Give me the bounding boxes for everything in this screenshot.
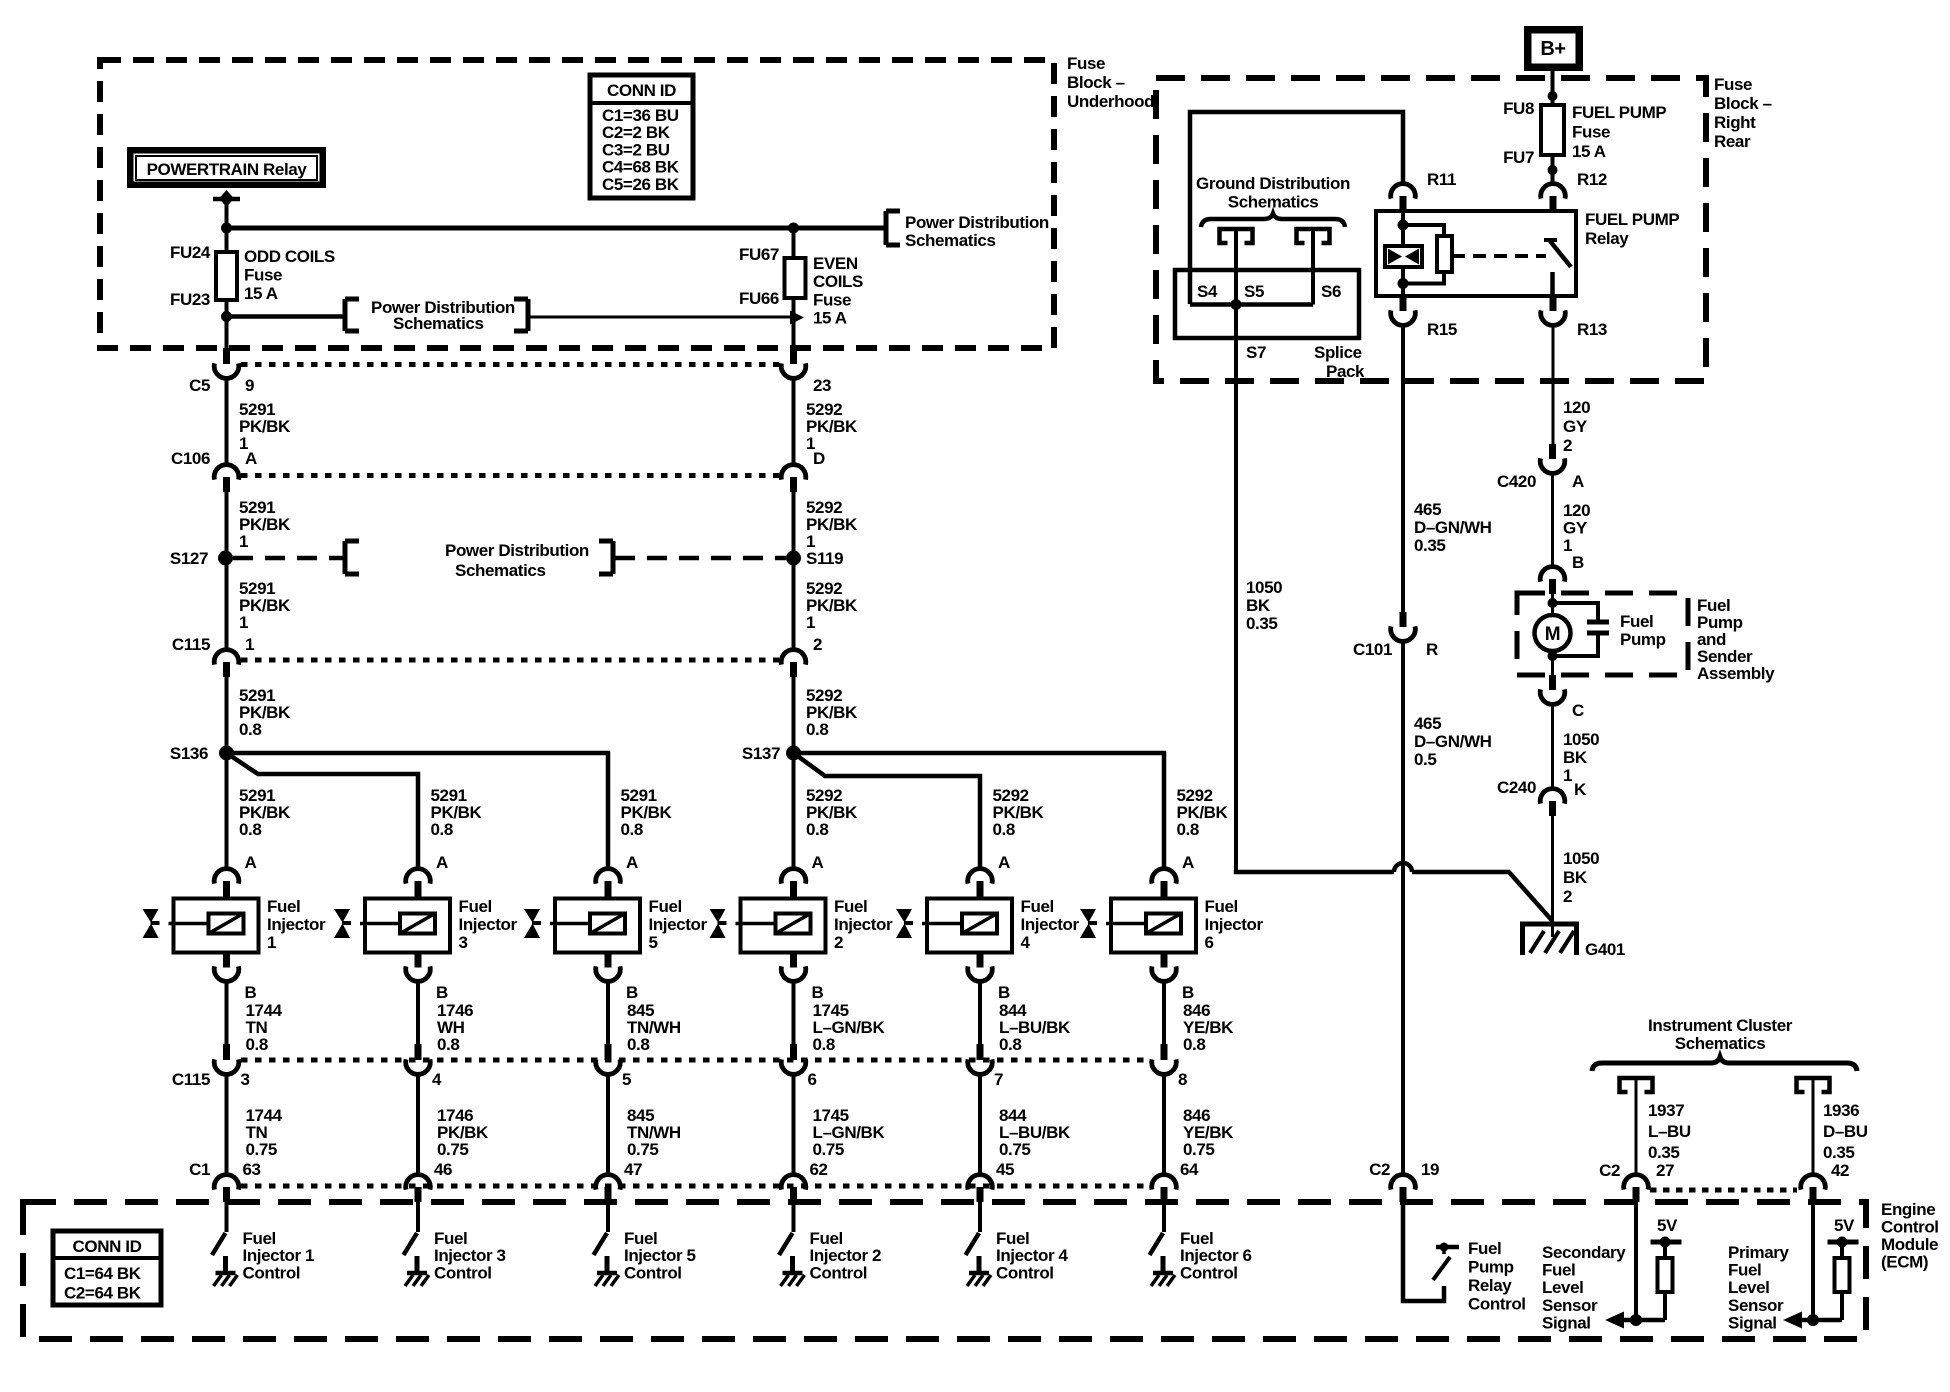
svg-text:46: 46 <box>434 1160 452 1179</box>
svg-text:0.8: 0.8 <box>246 1035 268 1054</box>
svg-text:0.75: 0.75 <box>627 1140 659 1159</box>
svg-text:G401: G401 <box>1585 940 1625 959</box>
svg-text:B: B <box>436 983 448 1002</box>
svg-text:Sensor: Sensor <box>1728 1296 1784 1315</box>
svg-text:Control: Control <box>243 1263 301 1282</box>
svg-text:7: 7 <box>994 1070 1003 1089</box>
svg-text:1050: 1050 <box>1246 578 1282 597</box>
svg-text:(ECM): (ECM) <box>1881 1253 1928 1272</box>
svg-text:C1=64 BK: C1=64 BK <box>64 1264 142 1283</box>
svg-text:0.5: 0.5 <box>1414 750 1436 769</box>
svg-text:R: R <box>1426 640 1438 659</box>
svg-text:S7: S7 <box>1246 343 1266 362</box>
svg-text:0.8: 0.8 <box>1177 820 1199 839</box>
svg-text:Power Distribution: Power Distribution <box>445 541 589 560</box>
svg-text:Fuel: Fuel <box>1468 1239 1501 1258</box>
svg-text:Injector: Injector <box>267 915 326 934</box>
svg-text:C2=2 BK: C2=2 BK <box>602 123 671 142</box>
svg-text:Pump: Pump <box>1468 1258 1514 1277</box>
svg-text:Injector 1: Injector 1 <box>243 1246 315 1265</box>
svg-text:Secondary: Secondary <box>1542 1243 1626 1262</box>
svg-text:FU67: FU67 <box>739 245 779 264</box>
svg-text:Control: Control <box>810 1263 868 1282</box>
svg-text:S127: S127 <box>170 549 208 568</box>
svg-text:5V: 5V <box>1834 1216 1855 1235</box>
svg-text:A: A <box>245 853 257 872</box>
svg-text:R12: R12 <box>1577 170 1607 189</box>
svg-text:3: 3 <box>459 933 468 952</box>
svg-text:0.35: 0.35 <box>1414 536 1446 555</box>
svg-text:B: B <box>1572 553 1584 572</box>
svg-text:Schematics: Schematics <box>393 314 484 333</box>
svg-text:1: 1 <box>239 532 248 551</box>
svg-text:C5: C5 <box>189 376 210 395</box>
svg-text:5: 5 <box>649 933 658 952</box>
svg-text:C1: C1 <box>189 1160 210 1179</box>
svg-text:CONN ID: CONN ID <box>73 1237 142 1256</box>
svg-text:Ground Distribution: Ground Distribution <box>1196 174 1350 193</box>
svg-text:Fuel: Fuel <box>1542 1261 1575 1280</box>
svg-text:1: 1 <box>239 613 248 632</box>
svg-text:C4=68 BK: C4=68 BK <box>602 158 680 177</box>
svg-text:Injector: Injector <box>1021 915 1080 934</box>
svg-text:C240: C240 <box>1497 778 1536 797</box>
svg-text:B: B <box>626 983 638 1002</box>
svg-text:S137: S137 <box>742 744 780 763</box>
svg-text:FU8: FU8 <box>1503 99 1534 118</box>
svg-text:D: D <box>813 449 825 468</box>
svg-text:A: A <box>1572 472 1584 491</box>
svg-text:0.8: 0.8 <box>437 1035 459 1054</box>
svg-text:1050: 1050 <box>1563 730 1599 749</box>
svg-text:Fuel: Fuel <box>649 897 682 916</box>
svg-text:465: 465 <box>1414 500 1441 519</box>
svg-text:23: 23 <box>813 376 831 395</box>
svg-text:45: 45 <box>996 1160 1014 1179</box>
svg-text:8: 8 <box>1178 1070 1187 1089</box>
svg-text:Fuse: Fuse <box>1714 75 1752 94</box>
svg-text:15 A: 15 A <box>1572 142 1606 161</box>
svg-text:15 A: 15 A <box>813 309 847 328</box>
svg-text:A: A <box>998 853 1010 872</box>
svg-text:0.8: 0.8 <box>239 720 261 739</box>
svg-text:465: 465 <box>1414 714 1441 733</box>
svg-text:S136: S136 <box>170 744 208 763</box>
svg-text:Pump: Pump <box>1620 630 1666 649</box>
svg-text:C106: C106 <box>171 449 210 468</box>
svg-text:BK: BK <box>1563 868 1588 887</box>
svg-text:0.8: 0.8 <box>627 1035 649 1054</box>
svg-text:GY: GY <box>1563 417 1588 436</box>
svg-text:9: 9 <box>245 376 254 395</box>
svg-text:C3=2 BU: C3=2 BU <box>602 140 670 159</box>
svg-text:6: 6 <box>808 1070 817 1089</box>
svg-text:C115: C115 <box>172 635 210 654</box>
svg-text:Signal: Signal <box>1728 1313 1777 1332</box>
svg-text:Fuel: Fuel <box>434 1229 467 1248</box>
svg-text:Injector 6: Injector 6 <box>1180 1246 1252 1265</box>
svg-text:1937: 1937 <box>1648 1101 1684 1120</box>
svg-text:FUEL PUMP: FUEL PUMP <box>1572 103 1666 122</box>
svg-text:ODD COILS: ODD COILS <box>244 247 335 266</box>
svg-text:GY: GY <box>1563 519 1588 538</box>
svg-text:C420: C420 <box>1497 472 1536 491</box>
svg-text:S6: S6 <box>1321 282 1341 301</box>
svg-text:0.8: 0.8 <box>1183 1035 1205 1054</box>
svg-text:S5: S5 <box>1244 282 1264 301</box>
svg-text:Fuse: Fuse <box>244 266 282 285</box>
svg-text:FUEL PUMP: FUEL PUMP <box>1585 210 1679 229</box>
svg-text:64: 64 <box>1180 1160 1199 1179</box>
svg-text:Level: Level <box>1542 1278 1583 1297</box>
svg-text:15 A: 15 A <box>244 284 278 303</box>
svg-text:42: 42 <box>1831 1161 1849 1180</box>
svg-text:FU23: FU23 <box>170 290 210 309</box>
svg-text:Instrument Cluster: Instrument Cluster <box>1648 1016 1793 1035</box>
svg-text:Injector 2: Injector 2 <box>810 1246 882 1265</box>
svg-text:S119: S119 <box>806 549 843 568</box>
svg-text:0.8: 0.8 <box>621 820 643 839</box>
svg-text:2: 2 <box>1563 887 1572 906</box>
svg-text:0.35: 0.35 <box>1246 614 1278 633</box>
svg-text:0.75: 0.75 <box>813 1140 845 1159</box>
svg-text:2: 2 <box>813 635 822 654</box>
svg-text:Control: Control <box>434 1263 492 1282</box>
svg-text:S4: S4 <box>1197 282 1218 301</box>
svg-text:4: 4 <box>1021 933 1031 952</box>
svg-text:K: K <box>1574 780 1587 799</box>
svg-text:Block –: Block – <box>1714 94 1772 113</box>
svg-text:2: 2 <box>834 933 843 952</box>
svg-text:0.8: 0.8 <box>813 1035 835 1054</box>
svg-text:CONN ID: CONN ID <box>607 81 676 100</box>
svg-text:19: 19 <box>1421 1160 1439 1179</box>
svg-text:C101: C101 <box>1353 640 1392 659</box>
svg-text:Block –: Block – <box>1067 73 1125 92</box>
svg-text:POWERTRAIN Relay: POWERTRAIN Relay <box>147 160 308 179</box>
svg-text:Fuel: Fuel <box>810 1229 843 1248</box>
svg-text:Schematics: Schematics <box>905 231 996 250</box>
svg-text:120: 120 <box>1563 398 1590 417</box>
svg-text:4: 4 <box>432 1070 442 1089</box>
svg-text:Control: Control <box>1881 1218 1939 1237</box>
svg-text:Splice: Splice <box>1314 343 1362 362</box>
svg-text:Fuel: Fuel <box>834 897 867 916</box>
svg-text:B: B <box>998 983 1010 1002</box>
svg-text:Fuel: Fuel <box>1620 612 1653 631</box>
svg-text:1: 1 <box>245 635 254 654</box>
svg-text:1: 1 <box>267 933 276 952</box>
svg-text:FU66: FU66 <box>739 289 779 308</box>
svg-text:EVEN: EVEN <box>813 254 858 273</box>
svg-text:Injector: Injector <box>834 915 893 934</box>
svg-text:Relay: Relay <box>1585 229 1629 248</box>
svg-text:120: 120 <box>1563 501 1590 520</box>
svg-text:A: A <box>626 853 638 872</box>
svg-text:A: A <box>245 449 257 468</box>
svg-text:Engine: Engine <box>1881 1200 1935 1219</box>
svg-text:B: B <box>245 983 257 1002</box>
svg-text:R15: R15 <box>1427 320 1457 339</box>
svg-text:Fuel: Fuel <box>1728 1261 1761 1280</box>
svg-text:Right: Right <box>1714 113 1756 132</box>
svg-text:Signal: Signal <box>1542 1313 1591 1332</box>
svg-text:Level: Level <box>1728 1278 1769 1297</box>
svg-text:Injector 5: Injector 5 <box>624 1246 696 1265</box>
svg-text:1936: 1936 <box>1823 1101 1859 1120</box>
svg-text:5: 5 <box>622 1070 631 1089</box>
svg-text:1: 1 <box>1563 766 1572 785</box>
svg-text:0.8: 0.8 <box>999 1035 1021 1054</box>
svg-text:A: A <box>1182 853 1194 872</box>
svg-text:1: 1 <box>806 613 815 632</box>
svg-text:63: 63 <box>243 1160 261 1179</box>
svg-text:0.75: 0.75 <box>1183 1140 1215 1159</box>
svg-text:2: 2 <box>1563 436 1572 455</box>
svg-text:R11: R11 <box>1427 170 1456 189</box>
svg-text:Injector: Injector <box>649 915 708 934</box>
svg-text:5V: 5V <box>1657 1216 1678 1235</box>
svg-text:Fuel: Fuel <box>1180 1229 1213 1248</box>
svg-text:27: 27 <box>1656 1161 1674 1180</box>
svg-text:C115: C115 <box>172 1070 210 1089</box>
svg-text:B: B <box>812 983 824 1002</box>
svg-text:B+: B+ <box>1540 38 1565 60</box>
svg-text:Fuel: Fuel <box>243 1229 276 1248</box>
svg-text:Fuel: Fuel <box>996 1229 1029 1248</box>
svg-text:C5=26 BK: C5=26 BK <box>602 175 680 194</box>
svg-text:C2: C2 <box>1369 1160 1390 1179</box>
svg-text:Underhood: Underhood <box>1067 92 1154 111</box>
svg-text:A: A <box>436 853 448 872</box>
svg-text:1: 1 <box>1563 536 1572 555</box>
svg-text:C2: C2 <box>1599 1161 1620 1180</box>
svg-text:D–BU: D–BU <box>1823 1122 1868 1141</box>
svg-text:0.8: 0.8 <box>431 820 453 839</box>
svg-text:Primary: Primary <box>1728 1243 1789 1262</box>
svg-text:M: M <box>1545 624 1560 645</box>
svg-text:Fuel: Fuel <box>267 897 300 916</box>
svg-text:L–BU: L–BU <box>1648 1122 1691 1141</box>
svg-text:Pack: Pack <box>1326 362 1365 381</box>
svg-text:R13: R13 <box>1577 320 1607 339</box>
svg-text:Fuse: Fuse <box>813 290 851 309</box>
svg-text:Schematics: Schematics <box>455 561 546 580</box>
svg-text:0.8: 0.8 <box>239 820 261 839</box>
svg-text:Assembly: Assembly <box>1697 664 1775 683</box>
svg-text:0.8: 0.8 <box>806 720 828 739</box>
svg-text:C: C <box>1572 701 1584 720</box>
svg-text:0.8: 0.8 <box>993 820 1015 839</box>
svg-text:FU24: FU24 <box>170 243 211 262</box>
svg-text:0.8: 0.8 <box>806 820 828 839</box>
svg-text:Fuel: Fuel <box>1021 897 1054 916</box>
svg-text:Rear: Rear <box>1714 132 1751 151</box>
svg-text:C1=36 BU: C1=36 BU <box>602 106 679 125</box>
svg-text:Control: Control <box>624 1263 682 1282</box>
svg-text:0.35: 0.35 <box>1648 1143 1680 1162</box>
svg-text:Relay: Relay <box>1468 1276 1512 1295</box>
svg-text:Fuse: Fuse <box>1067 54 1105 73</box>
svg-text:BK: BK <box>1563 748 1588 767</box>
svg-text:0.75: 0.75 <box>437 1140 469 1159</box>
svg-text:Injector 4: Injector 4 <box>996 1246 1069 1265</box>
svg-text:Injector: Injector <box>459 915 518 934</box>
svg-text:0.35: 0.35 <box>1823 1143 1855 1162</box>
svg-text:D–GN/WH: D–GN/WH <box>1414 518 1492 537</box>
svg-text:Fuse: Fuse <box>1572 123 1610 142</box>
svg-text:A: A <box>812 853 824 872</box>
svg-text:B: B <box>1182 983 1194 1002</box>
svg-text:COILS: COILS <box>813 272 863 291</box>
svg-text:Fuel: Fuel <box>624 1229 657 1248</box>
svg-text:Control: Control <box>996 1263 1054 1282</box>
svg-text:FU7: FU7 <box>1503 148 1534 167</box>
svg-text:0.75: 0.75 <box>999 1140 1031 1159</box>
svg-text:6: 6 <box>1205 933 1214 952</box>
svg-text:1050: 1050 <box>1563 849 1599 868</box>
svg-text:Fuel: Fuel <box>1205 897 1238 916</box>
svg-text:Fuel: Fuel <box>459 897 492 916</box>
svg-text:Module: Module <box>1881 1235 1938 1254</box>
svg-text:Injector: Injector <box>1205 915 1264 934</box>
svg-text:3: 3 <box>241 1070 250 1089</box>
svg-text:BK: BK <box>1246 596 1271 615</box>
svg-text:Control: Control <box>1180 1263 1238 1282</box>
svg-text:0.75: 0.75 <box>246 1140 278 1159</box>
svg-text:Control: Control <box>1468 1295 1526 1314</box>
svg-text:Power Distribution: Power Distribution <box>905 213 1049 232</box>
svg-text:47: 47 <box>624 1160 642 1179</box>
svg-text:D–GN/WH: D–GN/WH <box>1414 732 1492 751</box>
svg-text:62: 62 <box>810 1160 828 1179</box>
svg-text:C2=64 BK: C2=64 BK <box>64 1284 142 1303</box>
svg-text:Injector 3: Injector 3 <box>434 1246 506 1265</box>
svg-text:Sensor: Sensor <box>1542 1296 1598 1315</box>
